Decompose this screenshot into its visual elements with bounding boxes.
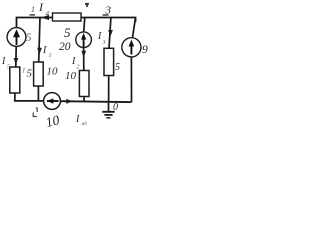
current source 10A (bottom) circle: [44, 93, 61, 110]
resistor 5 (top): [53, 13, 82, 21]
svg-text:I: I: [97, 31, 102, 42]
svg-text:5: 5: [64, 25, 71, 40]
svg-text:10: 10: [65, 70, 77, 82]
resistor 5 (right branch): [104, 48, 114, 75]
node 1 tick: [30, 14, 36, 15]
svg-text:I: I: [1, 56, 6, 67]
svg-text:5: 5: [26, 30, 32, 44]
svg-text:I: I: [42, 45, 47, 56]
svg-text:5: 5: [115, 62, 120, 73]
current source 9 (right) circle: [122, 38, 141, 57]
svg-text:I: I: [75, 114, 80, 125]
bottom wire right of source: [60, 100, 131, 103]
source arrow (up) inside left circle: [16, 36, 18, 45]
resistor 5 (left branch): [10, 67, 20, 93]
current arrow I2 (down): [81, 51, 86, 58]
svg-text:3: 3: [102, 40, 106, 46]
svg-text:10: 10: [47, 66, 59, 78]
branch node1 vertical wire: [39, 18, 40, 63]
wire below right resistor to bottom: [108, 76, 110, 103]
current arrow I3 (down): [108, 30, 113, 37]
svg-text:1: 1: [31, 5, 35, 14]
svg-text:5: 5: [27, 68, 33, 80]
branch node2 vertical wire top: [84, 18, 85, 33]
svg-text:9: 9: [142, 44, 148, 56]
current source 20 (middle) circle: [76, 32, 92, 48]
svg-text:4: 4: [46, 10, 50, 18]
current arrow I4 (points left on top wire): [41, 15, 49, 20]
branch node3 vertical wire: [109, 18, 111, 49]
wire top-left horizontal (node1 to R5): [17, 18, 53, 29]
current arrow Iab (right): [66, 99, 72, 104]
source arrow (up) inside middle circle: [83, 38, 85, 47]
wire below middle-left resistor: [37, 86, 39, 101]
wire top-right horizontal (R5 to corner): [81, 18, 136, 23]
svg-text:I: I: [71, 56, 76, 67]
ground: [108, 102, 110, 111]
source arrow (left) inside bottom circle: [47, 100, 59, 102]
wire below right source to bottom corner: [130, 57, 132, 102]
current arrow I5 (down, left branch): [14, 58, 19, 65]
svg-text:ab: ab: [82, 121, 88, 127]
current source 5A (left) circle: [7, 28, 26, 47]
wire left-bottom corner: [15, 93, 44, 101]
wire below middle source with I2 arrow: [83, 47, 85, 70]
svg-text:1: 1: [22, 67, 26, 75]
svg-text:0: 0: [113, 102, 118, 113]
wire from top corner to right source: [133, 18, 136, 38]
node 2 tick mark: [85, 3, 89, 7]
wire below middle resistor: [83, 97, 85, 103]
svg-text:2: 2: [77, 65, 80, 71]
resistor 10 (middle-left): [34, 62, 44, 86]
node 4 mark (below bottom wire): [33, 108, 37, 117]
svg-text:1: 1: [49, 53, 52, 59]
svg-text:20: 20: [59, 41, 71, 53]
current arrow I1 (down): [37, 48, 42, 55]
node 3 tick: [103, 14, 109, 15]
resistor 10 (middle): [79, 71, 89, 97]
wire left below source: [15, 46, 17, 67]
source arrow (up) inside right circle: [130, 45, 132, 55]
